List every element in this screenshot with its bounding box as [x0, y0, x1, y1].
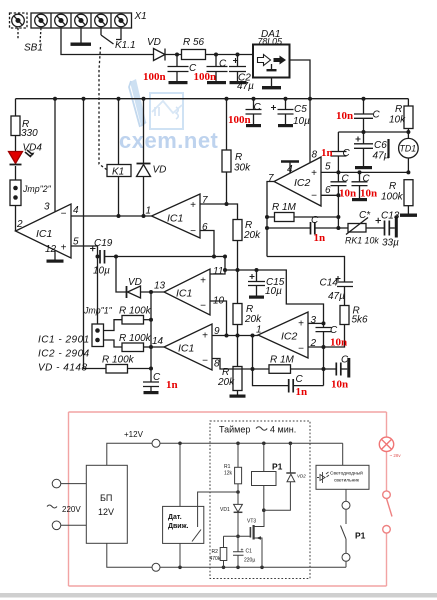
diode VD (to pin 13) — [126, 286, 128, 298]
pin10 wire — [210, 301, 227, 336]
svg-text:P1: P1 — [272, 462, 283, 472]
svg-text:10k: 10k — [389, 115, 406, 126]
svg-text:C5: C5 — [294, 104, 307, 115]
svg-text:C: C — [219, 59, 227, 70]
capacitor C 100n (first) — [168, 55, 189, 82]
wire VD to R56 — [165, 54, 182, 56]
svg-text:1n: 1n — [166, 379, 178, 391]
pin6 wire — [200, 231, 214, 257]
diode VD1 — [234, 504, 243, 512]
svg-text:cxem.net: cxem.net — [119, 128, 219, 153]
svg-text:R 1M: R 1M — [272, 202, 297, 213]
svg-text:C*: C* — [359, 210, 371, 221]
LED VD4 — [15, 136, 17, 152]
svg-text:4 мин.: 4 мин. — [270, 425, 296, 435]
svg-text:VT3: VT3 — [247, 519, 256, 525]
svg-text:Дат.: Дат. — [168, 514, 182, 521]
svg-text:светильник: светильник — [334, 479, 360, 484]
capacitor 10n (bus to C6 line) — [354, 99, 373, 132]
capacitor C 10n (pin5 to pin6) — [331, 172, 347, 195]
resistor R 1M (upper) — [275, 213, 295, 222]
resistor chain R 20k (upper) — [233, 220, 242, 241]
capacitor C19 10u — [97, 246, 99, 324]
svg-text:IC1 - 2901: IC1 - 2901 — [38, 335, 90, 346]
capacitor C 1n (x338 upper) — [331, 132, 347, 172]
svg-text:6: 6 — [202, 222, 208, 233]
svg-text:X1: X1 — [134, 11, 147, 22]
contact K1.1 — [101, 28, 121, 44]
timer dashed box — [210, 421, 310, 579]
feedback vertical node — [150, 292, 152, 369]
pin5 line — [321, 171, 408, 173]
output line to C14 — [267, 257, 345, 282]
svg-text:10µ: 10µ — [265, 286, 282, 297]
svg-text:10n: 10n — [360, 188, 377, 200]
resistor R 5k6 — [340, 306, 349, 325]
svg-text:6: 6 — [325, 185, 331, 196]
svg-text:C19: C19 — [94, 238, 113, 249]
op-amp IC2.1 — [274, 157, 321, 206]
svg-text:VD - 4148: VD - 4148 — [38, 363, 88, 374]
terminal screws — [12, 14, 128, 27]
feedback link — [252, 336, 254, 370]
svg-text:78L05: 78L05 — [258, 37, 283, 47]
resistor R 1M (lower) — [269, 365, 291, 374]
pin 3 wire — [54, 99, 56, 212]
LED luminaire box — [316, 465, 369, 489]
svg-text:220µ: 220µ — [244, 558, 255, 564]
svg-text:R 100k: R 100k — [119, 333, 152, 344]
svg-text:10n: 10n — [330, 337, 347, 349]
svg-text:+: + — [190, 200, 196, 211]
svg-text:C: C — [330, 325, 338, 336]
svg-text:10n: 10n — [336, 110, 353, 122]
svg-text:100n: 100n — [228, 114, 251, 126]
svg-text:220V: 220V — [62, 505, 81, 514]
svg-text:−: − — [190, 226, 196, 237]
capacitor C 1n (IC2.1 feedback) — [267, 227, 311, 229]
dashed link K1.1 to K1 — [99, 47, 107, 170]
svg-text:1: 1 — [146, 206, 152, 217]
capacitor C 10n (output) — [324, 368, 337, 370]
svg-text:2: 2 — [310, 338, 317, 349]
mains terminals 220V — [52, 479, 61, 488]
svg-text:8: 8 — [312, 150, 318, 161]
svg-text:C13: C13 — [381, 211, 400, 222]
svg-text:K1: K1 — [112, 167, 124, 178]
resistor R 100k (mic) — [404, 180, 413, 206]
resistor R 100k (second) — [122, 343, 144, 352]
pink frame — [69, 412, 387, 586]
op-amp IC1.4 — [164, 324, 212, 370]
svg-text:K1.1: K1.1 — [115, 40, 136, 51]
relay coil P1 — [263, 443, 265, 471]
wire pin14 — [151, 346, 164, 348]
svg-text:−: − — [200, 301, 206, 312]
resistor R 56 — [182, 50, 206, 60]
svg-text:+: + — [241, 548, 244, 554]
svg-text:IC1: IC1 — [167, 213, 183, 225]
svg-text:VD1: VD1 — [220, 507, 230, 513]
capacitor C 10n (pin5 to gnd) — [352, 172, 368, 198]
svg-text:+: + — [61, 243, 67, 254]
svg-text:470k: 470k — [210, 556, 221, 562]
pin 12 ground — [54, 251, 56, 260]
sensor output wire — [198, 492, 238, 527]
op-amp IC1.2 — [152, 194, 201, 238]
svg-text:VD: VD — [153, 165, 167, 176]
pin9 wire to IC2.2 — [212, 335, 258, 337]
node — [214, 53, 218, 57]
svg-text:IC2 - 2904: IC2 - 2904 — [38, 349, 90, 360]
terminal block X1 body — [31, 13, 132, 28]
regulator DA1 78L05 — [253, 45, 290, 78]
svg-text:13: 13 — [154, 281, 166, 292]
terminal block X1 dashed cell — [10, 13, 28, 28]
resistor R 10k — [404, 106, 413, 129]
pin7 wire — [200, 204, 238, 220]
microphone TD1 — [399, 138, 419, 158]
svg-text:IC1: IC1 — [36, 228, 52, 240]
svg-text:Таймер: Таймер — [219, 425, 250, 435]
svg-text:12k: 12k — [224, 471, 233, 477]
svg-text:Jmp"2": Jmp"2" — [22, 184, 52, 194]
pin6 line — [321, 194, 338, 196]
svg-text:P1: P1 — [355, 531, 366, 541]
wire DA1 output to bus — [290, 60, 311, 99]
capacitor C 1n (IC2.2 feedback) — [253, 369, 289, 386]
pin 7 output wire — [267, 182, 274, 257]
svg-text:5: 5 — [325, 162, 331, 173]
capacitor C13 33u — [366, 227, 385, 229]
capacitor C14 47u — [337, 282, 353, 306]
svg-text:30k: 30k — [234, 163, 251, 174]
capacitor C15 10u — [248, 270, 265, 296]
svg-text:10µ: 10µ — [93, 266, 110, 277]
svg-text:C: C — [311, 215, 319, 226]
svg-text:4: 4 — [73, 205, 79, 216]
relay contact P1 (red) — [383, 491, 392, 533]
resistor R1 12k — [237, 443, 239, 467]
svg-text:C14: C14 — [320, 278, 339, 289]
svg-text:5: 5 — [73, 237, 79, 248]
capacitor C 100n (bus) — [246, 99, 262, 124]
svg-text:1: 1 — [256, 325, 262, 336]
svg-text:IC1: IC1 — [176, 288, 192, 300]
pin8 wire — [212, 359, 253, 370]
diode VD (input) — [154, 49, 166, 61]
op-amp IC1.3 — [164, 269, 210, 315]
svg-text:4: 4 — [287, 164, 293, 175]
resistor R 20k (lower) — [233, 367, 242, 391]
svg-text:R 1M: R 1M — [270, 355, 295, 366]
svg-text:C: C — [363, 174, 371, 185]
svg-text:330: 330 — [21, 128, 38, 139]
svg-text:20k: 20k — [243, 230, 261, 241]
node — [175, 53, 179, 57]
resistor R 20k (middle) — [233, 304, 242, 325]
svg-text:+: + — [202, 331, 208, 342]
svg-text:−: − — [202, 356, 208, 367]
trimmer RK1 10k — [338, 227, 348, 229]
flyback diode VD — [143, 99, 145, 164]
capacitor C2 47u — [229, 55, 246, 82]
svg-text:11: 11 — [213, 266, 223, 277]
capacitor C 100n (second) — [207, 55, 228, 82]
resistor R 30k — [226, 99, 228, 150]
svg-text:5k6: 5k6 — [352, 315, 369, 326]
svg-text:R 56: R 56 — [183, 37, 205, 48]
transistor VT3 — [249, 527, 251, 538]
svg-text:R1: R1 — [224, 464, 231, 470]
svg-text:1n: 1n — [314, 232, 326, 244]
svg-text:100n: 100n — [194, 71, 217, 83]
lamp 28v — [379, 437, 393, 451]
svg-text:R 100k: R 100k — [102, 355, 135, 366]
svg-text:8: 8 — [214, 359, 220, 370]
resistor R 100k (third) — [106, 365, 128, 374]
svg-text:R: R — [389, 181, 396, 192]
svg-text:47µ: 47µ — [237, 81, 254, 92]
pin11 wire — [210, 257, 225, 275]
pin 5 wire — [71, 245, 98, 247]
wire R56 to DA1 — [206, 54, 254, 56]
svg-text:+: + — [200, 276, 206, 287]
pin3 wire — [308, 322, 324, 324]
reference line C15 — [225, 270, 324, 323]
relay contact P1 (black) — [345, 489, 347, 501]
svg-text:VD: VD — [128, 277, 142, 288]
svg-text:+12V: +12V — [124, 430, 144, 439]
svg-text:R: R — [235, 152, 242, 163]
ground below DA1 — [271, 78, 273, 87]
resistor R 330 — [15, 99, 17, 116]
svg-text:C: C — [296, 374, 304, 385]
jumper Jmp"2" — [15, 166, 17, 180]
supply bus — [16, 98, 409, 100]
svg-text:100n: 100n — [143, 71, 166, 83]
svg-text:IC2: IC2 — [294, 177, 311, 189]
0V rail — [107, 543, 152, 567]
bottom gray divider — [0, 593, 437, 598]
svg-text:10µ: 10µ — [293, 116, 310, 127]
wire Jmp2 to IC1 pin2 — [15, 206, 17, 232]
svg-text:C1: C1 — [246, 549, 253, 555]
capacitor C5 10u — [278, 99, 294, 124]
node — [236, 53, 240, 57]
svg-text:+: + — [298, 319, 304, 330]
svg-text:47µ: 47µ — [328, 291, 345, 302]
C6 line — [338, 131, 408, 133]
svg-text:C: C — [153, 372, 161, 383]
svg-text:~ 28v: ~ 28v — [390, 453, 402, 458]
ground at terminal 3 — [80, 28, 82, 43]
capacitor C 1n (left) — [143, 369, 159, 392]
svg-text:1n: 1n — [321, 147, 333, 159]
resistor R2 470k — [220, 548, 227, 561]
svg-text:47µ: 47µ — [373, 151, 390, 162]
svg-text:2: 2 — [16, 219, 23, 230]
top right rail corner — [407, 99, 409, 106]
pin2 node — [322, 345, 326, 349]
svg-text:C: C — [342, 174, 350, 185]
svg-text:100k: 100k — [381, 192, 404, 203]
svg-text:20k: 20k — [244, 314, 262, 325]
svg-text:10n: 10n — [331, 379, 348, 391]
wire to VD and pin13 — [116, 257, 127, 293]
svg-text:−: − — [61, 209, 67, 220]
switch SB1 dashed stubs — [18, 28, 41, 43]
svg-text:3: 3 — [311, 315, 317, 326]
jumper Jmp"1" — [92, 324, 104, 347]
svg-text:+: + — [311, 168, 317, 179]
svg-text:SB1: SB1 — [24, 43, 43, 54]
svg-text:C6: C6 — [374, 140, 387, 151]
svg-text:R 100k: R 100k — [119, 306, 152, 317]
capacitor C 10n (pin3-pin2) — [316, 323, 332, 347]
gate row — [224, 536, 251, 547]
diode VD2 — [289, 443, 291, 472]
svg-text:C: C — [343, 148, 351, 159]
svg-text:VD2: VD2 — [297, 474, 306, 479]
relay coil K1 — [118, 99, 120, 165]
svg-text:12V: 12V — [98, 507, 114, 517]
svg-text:Светодиодный: Светодиодный — [330, 470, 363, 477]
capacitor C1 220u — [233, 536, 244, 567]
jumper links — [104, 320, 123, 347]
svg-text:C: C — [254, 102, 262, 113]
svg-text:3: 3 — [44, 202, 50, 213]
resistor R 100k (first) — [122, 316, 144, 325]
svg-text:14: 14 — [152, 336, 164, 347]
svg-text:Движ.: Движ. — [168, 523, 189, 530]
wire terminal2 to VD — [61, 28, 154, 55]
svg-text:−: − — [311, 191, 317, 202]
power supply BP 12V — [86, 465, 127, 543]
svg-text:R2: R2 — [212, 549, 219, 555]
svg-text:Jmp"1": Jmp"1" — [83, 306, 113, 316]
svg-text:C: C — [341, 355, 349, 366]
svg-text:БП: БП — [100, 493, 112, 503]
svg-text:RK1 10k: RK1 10k — [345, 236, 379, 246]
svg-text:10n: 10n — [339, 188, 356, 200]
svg-text:7: 7 — [268, 173, 274, 184]
motion sensor box — [163, 506, 204, 543]
svg-text:33µ: 33µ — [382, 238, 399, 249]
svg-text:12: 12 — [45, 244, 57, 255]
op-amp IC1.1 — [16, 204, 72, 258]
svg-text:R: R — [395, 104, 402, 115]
ground under R20k chain — [237, 391, 239, 395]
svg-text:IC1: IC1 — [178, 343, 194, 355]
svg-text:IC2: IC2 — [281, 331, 298, 343]
pin 8 wire from bus — [309, 99, 311, 163]
capacitor C6 47u — [354, 132, 373, 166]
svg-text:1n: 1n — [296, 386, 308, 398]
svg-text:TD1: TD1 — [400, 144, 417, 154]
+12V rail — [107, 443, 152, 465]
svg-text:−: − — [298, 344, 304, 355]
svg-text:20k: 20k — [217, 377, 235, 388]
pin 4 ground bar — [289, 163, 291, 173]
watermark cxem.net sketch — [129, 79, 183, 129]
pin 4 wire to IC1.2 — [71, 215, 152, 217]
long wire from bus to R100k3 — [84, 99, 107, 369]
svg-text:VD: VD — [147, 37, 161, 48]
svg-text:C: C — [373, 110, 381, 121]
op-amp IC2.2 — [258, 312, 308, 358]
